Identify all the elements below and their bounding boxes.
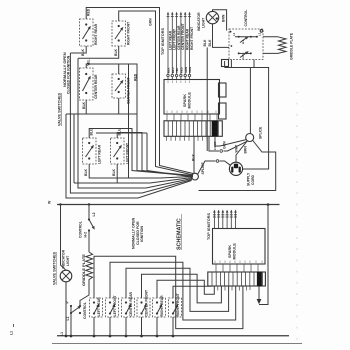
wire bundle verticals — [137, 119, 193, 177]
svg-text:MODULE: MODULE — [188, 92, 192, 109]
label VALVE SWITCHES (schematic) — [53, 251, 57, 285]
svg-text:BLK: BLK — [203, 39, 207, 47]
label VALVE SWITCHES (upper) — [57, 52, 70, 126]
wire control bottom to right rail — [225, 60, 269, 170]
svg-text:LIGHT: LIGHT — [201, 17, 205, 28]
svg-text:BLU: BLU — [171, 67, 175, 73]
valve switch LEFT REAR (upper) — [83, 128, 102, 176]
svg-text:GRIDDLE PLATE: GRIDDLE PLATE — [81, 254, 86, 286]
label NORMALLY OPEN CLOSED FOR IGNITION (schematic) — [132, 217, 145, 249]
svg-text:LIGHT: LIGHT — [66, 255, 70, 266]
wire module right pins to splice S2 — [219, 68, 251, 134]
svg-text:RIGHT FRONT: RIGHT FRONT — [176, 292, 180, 316]
svg-text:BLU: BLU — [118, 128, 122, 136]
wire LEFT FRONT black return — [74, 164, 192, 183]
svg-text:SPARK: SPARK — [228, 245, 232, 258]
wire LEFT REAR black return — [89, 164, 192, 178]
node W bus — [48, 200, 280, 206]
connector ribbon (schematic) — [208, 264, 266, 291]
svg-text:VALVE SWITCHES: VALVE SWITCHES — [53, 251, 57, 285]
svg-text:GRN: GRN — [184, 67, 188, 73]
svg-text:CLOSED FOR IGNITION: CLOSED FOR IGNITION — [66, 55, 70, 94]
valve switch CENTER FRONT (upper) — [112, 73, 138, 104]
spark module U1 (upper) — [164, 80, 220, 115]
valve switch RIGHT REAR (upper) — [80, 8, 99, 56]
wire RIGHT REAR top lead to top bus — [86, 8, 193, 174]
wire splice S1 to supply cord — [198, 160, 231, 174]
svg-text:BLK: BLK — [81, 48, 85, 56]
svg-text:BRN: BRN — [244, 146, 248, 154]
svg-text:ORN: ORN — [188, 67, 192, 73]
svg-text:CENTER REAR: CENTER REAR — [94, 74, 98, 99]
valve switch RIGHT REAR (schematic) — [153, 280, 215, 336]
wire BLK from connector to splice S1 — [191, 136, 195, 173]
connector ribbon (upper) — [164, 114, 222, 141]
svg-text:SPARK: SPARK — [183, 94, 187, 107]
svg-text:TOP IGNITORS: TOP IGNITORS — [207, 213, 211, 240]
svg-text:BRN: BRN — [222, 14, 226, 22]
svg-text:CONTROL: CONTROL — [79, 221, 83, 238]
svg-text:BLK: BLK — [84, 168, 88, 176]
valve switch CENTER FRONT (schematic) — [137, 274, 221, 336]
svg-text:H-1: H-1 — [241, 39, 245, 44]
spark module U2 (schematic) — [213, 229, 266, 265]
indicator light DS1 (upper) — [197, 11, 226, 31]
svg-text:LEFT REAR: LEFT REAR — [97, 297, 101, 317]
sheet edge dashed lower right — [296, 97, 298, 345]
wire schematic ignitor stubs — [213, 210, 237, 229]
wire griddle to control P contact — [80, 285, 89, 306]
supply cord plug P1 — [229, 162, 254, 186]
svg-text:TOP IGNITORS: TOP IGNITORS — [161, 28, 165, 55]
svg-text:RIGHT REAR: RIGHT REAR — [160, 295, 164, 317]
wire WHT supply to splice S2 — [235, 141, 248, 162]
wire module ground with arrow — [257, 205, 268, 305]
svg-text:RIGHT REAR: RIGHT REAR — [94, 23, 98, 45]
svg-text:SPLICE: SPLICE — [259, 126, 263, 139]
svg-text:H-2: H-2 — [241, 54, 245, 59]
valve switch LEFT REAR (schematic) — [90, 256, 243, 336]
valve switch LEFT FRONT (upper) — [111, 128, 130, 176]
svg-text:CORD: CORD — [251, 174, 255, 185]
svg-text:BLU: BLU — [90, 128, 94, 136]
svg-text:GRIDDLE PLATE: GRIDDLE PLATE — [290, 32, 294, 60]
svg-text:LEFT FRONT: LEFT FRONT — [113, 294, 117, 316]
wire CENTER pair loop — [66, 64, 137, 119]
connector plug P2 (upper small box) — [222, 60, 229, 67]
svg-text:2-WHT: 2-WHT — [213, 141, 217, 150]
svg-text:CONTROL: CONTROL — [83, 302, 87, 319]
svg-text:BLK: BLK — [112, 168, 116, 176]
svg-text:L1: L1 — [60, 332, 64, 336]
splice S1 — [192, 162, 205, 180]
griddle element R2 (schematic) — [81, 252, 93, 286]
control switch H-2 (schematic) — [79, 205, 96, 253]
svg-text:BLK: BLK — [114, 48, 118, 56]
valve switch CENTER REAR (upper) — [80, 59, 99, 109]
control P switch (schematic) — [66, 301, 87, 337]
wire LEFT pair top leads — [89, 129, 193, 177]
svg-text:L1: L1 — [10, 331, 14, 335]
wire RIGHT pair black returns — [70, 46, 128, 178]
svg-text:BLK: BLK — [167, 67, 171, 73]
svg-text:IGNITION: IGNITION — [140, 226, 144, 242]
indicator light DS2 (schematic) — [60, 205, 72, 337]
svg-text:CENTER FRONT: CENTER FRONT — [145, 289, 149, 316]
label SCHEMATIC — [177, 214, 183, 250]
valve switch RIGHT FRONT (schematic) — [169, 286, 212, 336]
splice S2 — [246, 126, 263, 141]
sheet bottom border — [52, 343, 302, 345]
valve switch CENTER REAR (schematic) — [122, 268, 229, 336]
svg-text:RIGHT FRONT: RIGHT FRONT — [127, 21, 131, 45]
svg-text:H-2: H-2 — [84, 232, 88, 238]
wire RIGHT FRONT top lead — [119, 11, 193, 175]
svg-text:MODULE: MODULE — [233, 243, 237, 260]
valve switch RIGHT FRONT (upper) — [112, 21, 131, 56]
wire ignitor CENTER REAR — [175, 12, 181, 80]
svg-text:CENTER REAR: CENTER REAR — [129, 291, 133, 316]
svg-text:BLK: BLK — [208, 39, 212, 47]
svg-text:L1: L1 — [66, 316, 70, 320]
wire ignitor LEFT FRONT — [171, 12, 177, 80]
wire indicator to control top — [213, 10, 227, 31]
wire connector to inline disconnect — [209, 136, 248, 152]
wire ignitor RIGHT REAR — [184, 12, 190, 80]
svg-text:YEL: YEL — [87, 59, 91, 66]
wire ignitor RIGHT FRONT — [188, 12, 194, 80]
svg-text:LEFT REAR: LEFT REAR — [98, 144, 102, 164]
svg-text:YEL: YEL — [175, 67, 179, 73]
svg-text:RIGHT FRONT: RIGHT FRONT — [190, 26, 194, 50]
svg-text:VALVE SWITCHES: VALVE SWITCHES — [57, 92, 61, 126]
wire ignitor CENTER FRONT — [180, 12, 186, 80]
wire GRN from splice S2 to connector — [215, 136, 247, 149]
svg-text:CENTER FRONT: CENTER FRONT — [127, 77, 131, 104]
wire indicator bottom lead — [203, 24, 229, 151]
svg-text:L2: L2 — [92, 212, 96, 216]
valve switch LEFT FRONT (schematic) — [106, 262, 236, 336]
svg-text:CONTROL: CONTROL — [244, 10, 248, 27]
wire ignitor LEFT REAR — [167, 12, 173, 80]
svg-text:WHT: WHT — [235, 144, 239, 153]
node L1 bus — [10, 324, 290, 337]
wire control to griddle leads — [263, 37, 278, 54]
svg-text:BLK: BLK — [191, 153, 195, 161]
svg-text:BLK: BLK — [82, 101, 86, 109]
svg-text:RED: RED — [180, 67, 184, 73]
control infinite switch (upper) — [229, 10, 263, 60]
griddle element R1 (upper) — [278, 32, 294, 60]
svg-text:LEFT FRONT: LEFT FRONT — [126, 142, 130, 164]
sheet edge dotted line right — [296, 92, 298, 347]
wire BRN from splice S2 — [199, 141, 276, 191]
svg-text:RED: RED — [87, 8, 91, 16]
svg-text:GRN: GRN — [223, 141, 227, 149]
svg-text:GRN: GRN — [149, 18, 153, 26]
wire nest horizontals — [78, 58, 192, 188]
